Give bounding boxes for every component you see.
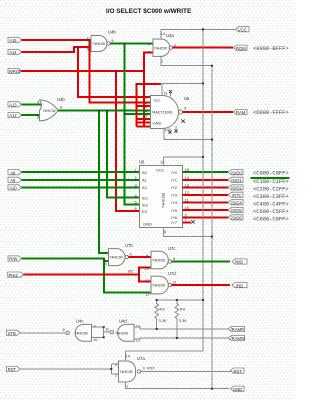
wire U7a pin7 GND — [126, 382, 230, 389]
svg-text:A2: A2 — [142, 185, 148, 190]
svg-text:U3b: U3b — [57, 97, 65, 102]
node /IO6 tag — [228, 215, 243, 221]
wire U5 GND pin — [164, 129, 212, 140]
wire R/W — [22, 259, 109, 262]
wire STB to U4c output — [20, 332, 66, 334]
decoder U6 74HC138 — [135, 160, 190, 235]
node /IO1 tag — [228, 177, 243, 183]
node /RAMW tag — [228, 335, 245, 341]
wire U7c output to /WD tag — [172, 261, 230, 263]
wire /Y6 output — [183, 216, 229, 218]
NAND gate U7d — [145, 271, 177, 297]
wire /Y1 output — [183, 179, 229, 181]
svg-text:VCC: VCC — [238, 28, 247, 33]
svg-text:VCC: VCC — [156, 168, 165, 173]
svg-text:74HC00: 74HC00 — [152, 284, 165, 288]
svg-text:GND: GND — [233, 387, 242, 392]
wire /Y2 output — [183, 186, 229, 188]
svg-text:RST: RST — [147, 366, 156, 371]
wire U4a pin14 VCC — [161, 29, 235, 39]
svg-text:A14: A14 — [9, 50, 17, 55]
svg-text:U7d: U7d — [168, 271, 176, 276]
svg-text:GND: GND — [143, 222, 152, 227]
svg-text:<C100-C1FF>: <C100-C1FF> — [253, 179, 289, 185]
wire U6 pin16 VCC — [164, 157, 204, 166]
NAND gate U4b — [87, 30, 117, 52]
wire U7d output to /RD tag — [172, 284, 230, 286]
wire /Y5 output — [183, 209, 229, 211]
node /IO4 tag — [228, 200, 243, 206]
wire U7a output to /RST tag — [141, 371, 231, 373]
svg-text:/RAMR: /RAMR — [231, 327, 245, 332]
wire U3b branch to /E1 — [107, 111, 140, 198]
node PHI2 input tag — [8, 272, 24, 278]
wire A15 to U5 — [90, 40, 151, 102]
node A9 input tag — [8, 177, 22, 183]
wire PHI2 branch to U7c — [139, 267, 151, 274]
wire U4c inputs tied — [92, 327, 111, 337]
svg-text:3.3K: 3.3K — [179, 318, 188, 323]
node A12 input tag — [8, 112, 22, 118]
wire U6 pin8 GND — [164, 228, 213, 237]
wire U4a output to ROM tag — [172, 47, 233, 49]
NAND gate U4a — [148, 31, 177, 64]
svg-text:RST: RST — [8, 367, 17, 372]
wire RST input to U7a — [20, 368, 111, 370]
wire green underline C000 — [251, 177, 290, 179]
svg-text:16: 16 — [160, 160, 165, 165]
wire WROP — [22, 53, 154, 128]
resistor R4 — [175, 300, 187, 338]
node ROM tag — [234, 45, 248, 51]
NAND gate U4d mirrored — [105, 319, 141, 343]
wire A9 to U6 — [22, 179, 140, 181]
svg-text:U5: U5 — [184, 96, 190, 101]
wire /Y3 output — [183, 194, 229, 196]
svg-text:Ø2: Ø2 — [128, 269, 134, 274]
svg-text:/SIO2: /SIO2 — [231, 186, 242, 191]
svg-text:74ACT11030: 74ACT11030 — [152, 110, 173, 114]
node A14 input tag — [8, 49, 22, 55]
svg-text:/Y1: /Y1 — [171, 178, 178, 183]
node /RTC tag — [228, 192, 243, 198]
svg-text:74HC00: 74HC00 — [120, 370, 133, 374]
svg-text:<C300-C3FF>: <C300-C3FF> — [253, 194, 289, 200]
svg-text:10: 10 — [145, 266, 150, 271]
wire A10 to U6 — [22, 186, 140, 188]
svg-text:13: 13 — [145, 292, 150, 297]
svg-text:<D000-FFFF>: <D000-FFFF> — [253, 110, 289, 116]
svg-text:74HC00: 74HC00 — [92, 42, 105, 46]
wire R3 bottom junction — [156, 328, 158, 330]
svg-text:/Y4: /Y4 — [171, 200, 178, 205]
svg-text:/RTC: /RTC — [232, 193, 242, 198]
svg-text:R3: R3 — [160, 307, 166, 312]
svg-text:PHI2: PHI2 — [9, 273, 19, 278]
svg-text:U4d: U4d — [119, 319, 127, 324]
svg-text:/SIO0: /SIO0 — [231, 170, 242, 175]
NAND gate U7a — [115, 354, 146, 390]
svg-text:74HC00: 74HC00 — [154, 47, 167, 51]
wire A14 to U5 — [78, 47, 151, 97]
wire PHI2 branch to U7d — [139, 275, 151, 282]
svg-text:U4c: U4c — [76, 319, 83, 324]
wire U3b output to U5 — [58, 109, 151, 111]
node /IO0 tag — [228, 170, 243, 176]
svg-text:R4: R4 — [180, 307, 186, 312]
wire U7a pin14 VCC — [125, 351, 127, 361]
svg-text:E3: E3 — [142, 209, 148, 214]
svg-text:/SIO1: /SIO1 — [231, 178, 242, 183]
OR gate U3b — [37, 97, 65, 121]
wire PHI2 — [24, 274, 140, 276]
svg-text:<C600-C6FF>: <C600-C6FF> — [253, 217, 289, 223]
node /RD tag — [232, 283, 247, 289]
svg-text:U7a: U7a — [137, 356, 145, 361]
svg-text:A1: A1 — [142, 178, 148, 183]
svg-text:A9: A9 — [10, 178, 16, 183]
svg-text:/E1: /E1 — [142, 195, 149, 200]
wire /Y0 output — [183, 171, 229, 173]
wire VCC rail — [202, 29, 204, 300]
node A10 input tag — [8, 185, 22, 191]
svg-text:ROM: ROM — [236, 46, 246, 51]
svg-text:74HC32: 74HC32 — [43, 109, 56, 113]
svg-text:A15: A15 — [9, 38, 17, 43]
wire A12 — [22, 114, 42, 116]
svg-text:/SIO5: /SIO5 — [231, 208, 242, 213]
svg-text:/WD: /WD — [235, 260, 243, 265]
wire /Y7 stub unconnected — [183, 220, 195, 223]
node /IO2 tag — [228, 185, 243, 191]
node WROP input tag — [8, 68, 22, 74]
node /RST tag — [231, 368, 245, 374]
svg-text:RAM: RAM — [236, 110, 246, 115]
svg-text:<C500-C5FF>: <C500-C5FF> — [253, 209, 289, 215]
wire GND rail — [211, 66, 213, 389]
node A8 input tag — [8, 170, 22, 176]
svg-text:STB: STB — [8, 331, 16, 336]
NAND gate U4c mirrored — [63, 319, 99, 343]
wire A13 — [22, 103, 42, 105]
wire A8 to U6 — [22, 171, 140, 173]
node R/W input tag — [8, 256, 22, 262]
wire A15 — [22, 39, 92, 41]
wire /Y4 output — [183, 201, 229, 203]
svg-text:WROP: WROP — [9, 69, 22, 74]
svg-text:A12: A12 — [9, 113, 17, 118]
svg-text:/SIO6: /SIO6 — [231, 216, 242, 221]
svg-text:R/W: R/W — [9, 257, 17, 262]
svg-text:RST: RST — [234, 369, 243, 374]
svg-text:/Y5: /Y5 — [171, 208, 178, 213]
svg-text:14: 14 — [126, 354, 131, 359]
node VCC tag — [236, 27, 250, 33]
resistor R3 — [155, 300, 167, 329]
node GND tag — [231, 386, 245, 392]
svg-text:A10: A10 — [9, 186, 17, 191]
wire U4d pin13 to /RAMW net — [134, 338, 228, 339]
node RAM tag — [234, 109, 248, 115]
wire U7a inputs tied — [111, 364, 118, 374]
wire U4a pin7 GND — [161, 56, 212, 65]
svg-text:/RAMW: /RAMW — [231, 336, 245, 341]
wire U5 VCC pin to rail — [162, 83, 203, 95]
node A13 input tag — [8, 102, 22, 108]
wire U4b output to U4a pin1 — [110, 43, 153, 45]
svg-text:<0000-BFFF>: <0000-BFFF> — [253, 46, 289, 52]
svg-text:74HC00: 74HC00 — [115, 331, 128, 335]
svg-text:<C400-C4FF>: <C400-C4FF> — [253, 201, 289, 207]
wire U5 unused inputs tied to VCC — [137, 83, 162, 126]
wire U4d pin12 to /RAMR net — [134, 327, 228, 329]
svg-text:<C200-C2FF>: <C200-C2FF> — [253, 186, 289, 192]
svg-text:I/O SELECT $C000 w/WRITE: I/O SELECT $C000 w/WRITE — [106, 8, 192, 15]
svg-text:Vcc: Vcc — [154, 98, 161, 103]
svg-text:A8: A8 — [10, 170, 16, 175]
wire U7b output to U7c — [128, 256, 151, 258]
svg-text:74HC00: 74HC00 — [110, 256, 123, 260]
wire U5 unused pin X top — [169, 90, 172, 97]
svg-text:/SIO4: /SIO4 — [231, 201, 242, 206]
svg-text:74HC00: 74HC00 — [75, 331, 88, 335]
wire R/W branch to U7d — [104, 259, 151, 293]
svg-text:74HC00: 74HC00 — [152, 259, 165, 263]
node /RAMR tag — [228, 326, 245, 332]
svg-text:U4b: U4b — [108, 30, 116, 35]
svg-text:U6: U6 — [139, 160, 145, 165]
svg-text:U7b: U7b — [125, 243, 133, 248]
svg-text:12: 12 — [145, 278, 150, 283]
wire U4b net branch to U5 — [124, 113, 150, 115]
svg-text:/Y0: /Y0 — [171, 170, 178, 175]
node STB tag — [7, 330, 21, 336]
svg-text:/Y3: /Y3 — [171, 193, 178, 198]
wire U4b output drop to /E2 — [124, 44, 139, 205]
wire branch to U7b pin4 — [99, 111, 109, 253]
NAND gate U7c — [145, 246, 177, 271]
wire A14 — [22, 47, 92, 52]
svg-text:/E2: /E2 — [142, 202, 149, 207]
svg-text:A0: A0 — [142, 170, 148, 175]
node RST input tag — [7, 366, 21, 372]
node /WD tag — [232, 259, 247, 265]
wire U5 output to RAM tag — [183, 111, 234, 113]
wire U5 unused pins X bottom — [168, 119, 184, 133]
svg-text:U4a: U4a — [166, 33, 174, 38]
svg-text:/Y2: /Y2 — [171, 185, 178, 190]
svg-text:/RD: /RD — [236, 283, 243, 288]
svg-text:74HC138: 74HC138 — [162, 193, 166, 208]
svg-text:3.3K: 3.3K — [159, 318, 168, 323]
node A15 input tag — [8, 37, 22, 43]
NAND gate U7b — [105, 243, 134, 266]
svg-text:GND: GND — [153, 121, 162, 126]
svg-text:A13: A13 — [9, 103, 17, 108]
NAND gate U5 74ACT11030 — [144, 91, 190, 133]
svg-text:<C000-C0FF>: <C000-C0FF> — [253, 171, 289, 177]
wire VCC pullup rail top — [126, 300, 204, 351]
node /IO5 tag — [228, 207, 243, 213]
svg-text:/Y7: /Y7 — [171, 220, 178, 225]
wire WROP branch to E3 — [116, 71, 140, 211]
svg-text:U7c: U7c — [168, 246, 175, 251]
